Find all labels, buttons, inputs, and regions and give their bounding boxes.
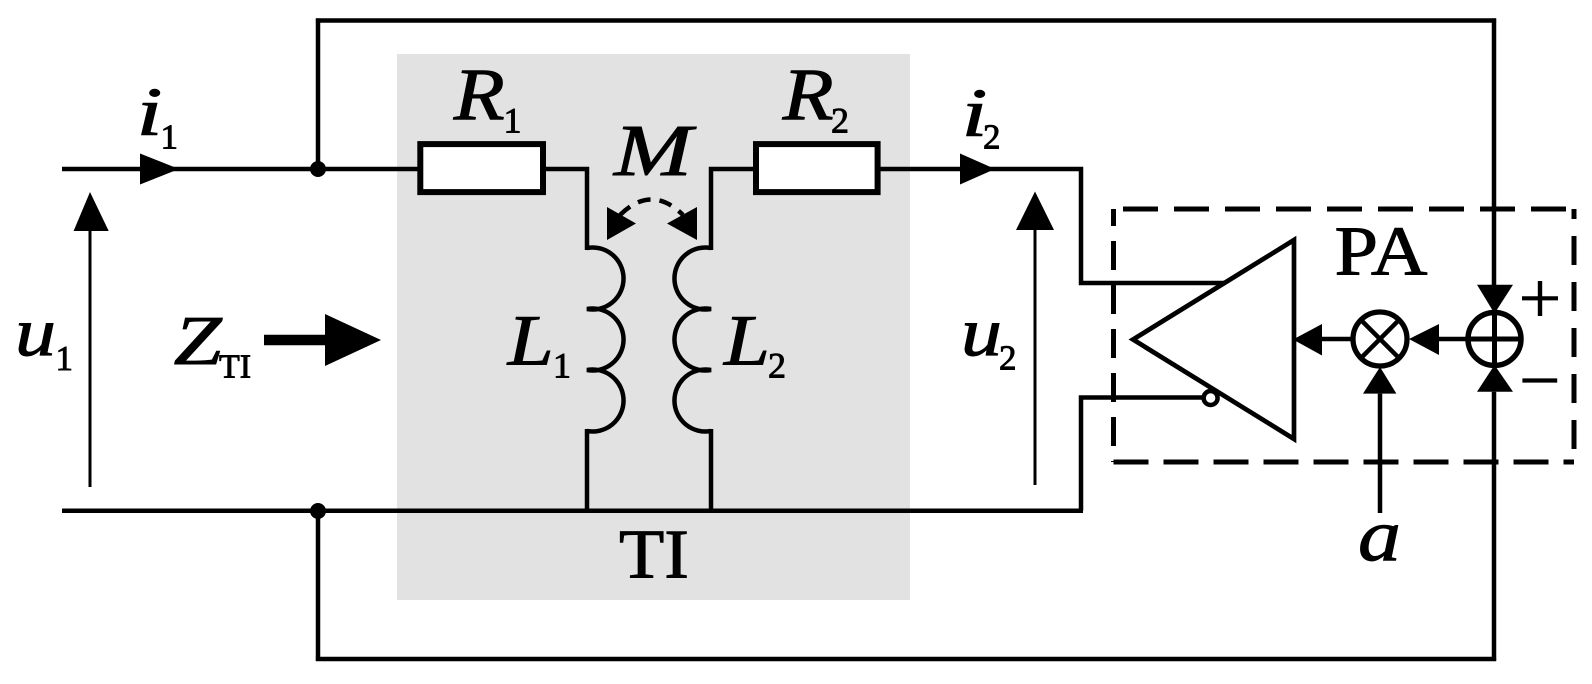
arrowhead i2 bbox=[960, 154, 995, 185]
svg-text:2: 2 bbox=[983, 117, 1001, 156]
svg-text:2: 2 bbox=[768, 346, 786, 386]
wire L1 bottom bbox=[585, 429, 590, 511]
svg-text:2: 2 bbox=[831, 101, 849, 141]
arrowhead a into multiplier bbox=[1363, 367, 1396, 394]
wire right vertical to summer minus bbox=[1492, 392, 1497, 661]
wire i1 input bbox=[62, 167, 420, 172]
multiplier circle bbox=[1353, 312, 1407, 366]
svg-text:2: 2 bbox=[999, 339, 1017, 378]
svg-text:1: 1 bbox=[553, 346, 571, 386]
svg-text:TI: TI bbox=[619, 517, 689, 594]
inductor L1 bbox=[587, 248, 624, 432]
mutual inductance arc M bbox=[620, 200, 683, 216]
PA dashed box top edge bbox=[1114, 207, 1575, 212]
svg-text:u: u bbox=[961, 294, 1002, 370]
svg-text:a: a bbox=[1358, 495, 1401, 577]
svg-text:u: u bbox=[15, 294, 56, 370]
minus sign bbox=[1522, 378, 1557, 382]
svg-text:M: M bbox=[613, 110, 698, 191]
svg-text:PA: PA bbox=[1335, 213, 1428, 290]
node junction top bbox=[310, 161, 326, 177]
wire bottom rail bbox=[316, 657, 1496, 662]
wire i2 output bbox=[878, 169, 1230, 283]
wire R1 to L1 bbox=[544, 169, 587, 250]
PA dashed box right edge bbox=[1572, 209, 1577, 462]
transformer TI shaded region bbox=[397, 54, 910, 600]
svg-text:i: i bbox=[137, 74, 163, 150]
svg-text:1: 1 bbox=[56, 339, 74, 378]
arrowhead i1 bbox=[140, 154, 179, 185]
wire a input to multiplier bbox=[1378, 394, 1383, 513]
wire right feedback vertical to summer + bbox=[1492, 18, 1497, 288]
svg-text:TI: TI bbox=[219, 349, 251, 386]
M arrowhead left bbox=[607, 207, 636, 240]
wire top rail bbox=[316, 18, 1496, 23]
wire summer to multiplier bbox=[1437, 337, 1470, 342]
op-amp PA triangle bbox=[1133, 240, 1294, 439]
wire bottom conductor bbox=[62, 508, 1083, 513]
wire top feedback vertical bbox=[316, 18, 321, 171]
wire L2 bottom bbox=[709, 429, 714, 511]
wire L2 to R2 bbox=[711, 169, 755, 250]
PA dashed box bottom edge bbox=[1114, 460, 1575, 465]
svg-text:Z: Z bbox=[174, 303, 223, 380]
wire bottom feedback vertical bbox=[316, 511, 321, 661]
arrow Z_TI bbox=[264, 335, 328, 346]
svg-text:R: R bbox=[453, 55, 505, 137]
svg-text:L: L bbox=[507, 301, 554, 381]
wire amp lower input bbox=[1081, 398, 1205, 511]
arrowhead into amplifier bbox=[1293, 324, 1322, 356]
arrowhead - into summer bbox=[1477, 365, 1513, 392]
inductor L2 bbox=[674, 248, 711, 432]
svg-text:1: 1 bbox=[161, 117, 179, 156]
arrow u1 bbox=[89, 228, 92, 487]
svg-text:1: 1 bbox=[504, 101, 522, 141]
node junction bottom bbox=[310, 503, 326, 519]
svg-text:R: R bbox=[782, 55, 834, 137]
arrowhead into multiplier from summer bbox=[1409, 324, 1439, 355]
svg-text:L: L bbox=[723, 301, 770, 381]
PA dashed box left edge bbox=[1111, 209, 1116, 462]
arrowhead + into summer bbox=[1477, 285, 1513, 314]
wire multiplier to amplifier bbox=[1320, 337, 1355, 342]
resistor R1 bbox=[420, 144, 543, 192]
resistor R2 bbox=[756, 144, 878, 192]
plus sign bbox=[1522, 296, 1558, 300]
summer circle bbox=[1468, 313, 1521, 366]
inverting bubble bbox=[1204, 391, 1218, 405]
arrow u2 bbox=[1034, 227, 1037, 485]
M arrowhead right bbox=[667, 207, 697, 240]
